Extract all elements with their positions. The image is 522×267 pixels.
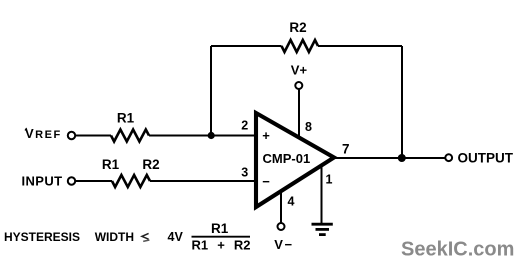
svg-text:OUTPUT: OUTPUT xyxy=(458,151,514,166)
wire VREF to pin 2 xyxy=(76,135,112,137)
svg-text:7: 7 xyxy=(342,141,350,156)
svg-text:V+: V+ xyxy=(291,63,308,78)
wire feedback left vertical xyxy=(210,46,212,136)
wire R1 to op-amp pin 2 xyxy=(149,135,256,137)
resistor R1-R2 (input leg) xyxy=(112,175,150,187)
wire pin 1 to ground xyxy=(321,166,323,225)
formula less-than-or-equal sign xyxy=(142,233,150,241)
svg-text:INPUT: INPUT xyxy=(22,174,63,189)
resistor R1 (top, VREF leg) xyxy=(111,130,149,142)
svg-text:+: + xyxy=(217,237,225,252)
wire V+ to pin 8 xyxy=(298,89,300,137)
svg-text:R1: R1 xyxy=(211,221,229,236)
wire feedback top right segment xyxy=(318,45,402,47)
scan tick before VREF xyxy=(25,128,27,130)
svg-text:2: 2 xyxy=(241,119,248,133)
svg-text:CMP-01: CMP-01 xyxy=(263,151,311,166)
wire output from pin 7 xyxy=(334,157,445,159)
terminal OUTPUT xyxy=(445,154,452,161)
resistor R2 (feedback) xyxy=(282,40,319,52)
svg-text:R1: R1 xyxy=(192,237,209,252)
svg-text:HYSTERESIS: HYSTERESIS xyxy=(4,230,80,244)
terminal V+ xyxy=(295,82,302,89)
ground xyxy=(312,224,333,234)
terminal VREF xyxy=(68,132,75,139)
svg-text:R2: R2 xyxy=(142,157,159,172)
wire INPUT to pin 3 xyxy=(76,180,113,182)
svg-text:R1: R1 xyxy=(117,110,135,125)
wire resistor to op-amp pin 3 xyxy=(150,180,256,182)
node junction at output xyxy=(398,154,406,162)
svg-text:4V: 4V xyxy=(168,230,184,244)
svg-text:R1: R1 xyxy=(102,157,120,172)
terminal INPUT xyxy=(68,177,75,184)
svg-text:VREF: VREF xyxy=(25,126,62,141)
svg-text:V−: V− xyxy=(274,237,293,252)
svg-text:WIDTH: WIDTH xyxy=(95,230,134,244)
svg-text:SeekIC.com: SeekIC.com xyxy=(401,238,514,260)
svg-text:4: 4 xyxy=(288,195,295,209)
wire pin 4 to V- xyxy=(280,191,282,223)
op-amp U1 CMP-01 triangle xyxy=(256,113,334,207)
svg-text:3: 3 xyxy=(241,166,248,180)
svg-text:8: 8 xyxy=(305,120,312,134)
formula fraction bar xyxy=(192,236,251,238)
wire feedback top left segment xyxy=(211,45,282,47)
svg-text:−: − xyxy=(262,174,270,189)
svg-text:1: 1 xyxy=(326,173,333,187)
svg-text:R2: R2 xyxy=(234,237,251,252)
svg-text:R2: R2 xyxy=(289,20,306,35)
wire feedback right vertical xyxy=(401,46,403,158)
svg-text:+: + xyxy=(262,128,270,143)
terminal V- xyxy=(278,223,285,230)
node junction at pin 2 xyxy=(208,132,215,139)
